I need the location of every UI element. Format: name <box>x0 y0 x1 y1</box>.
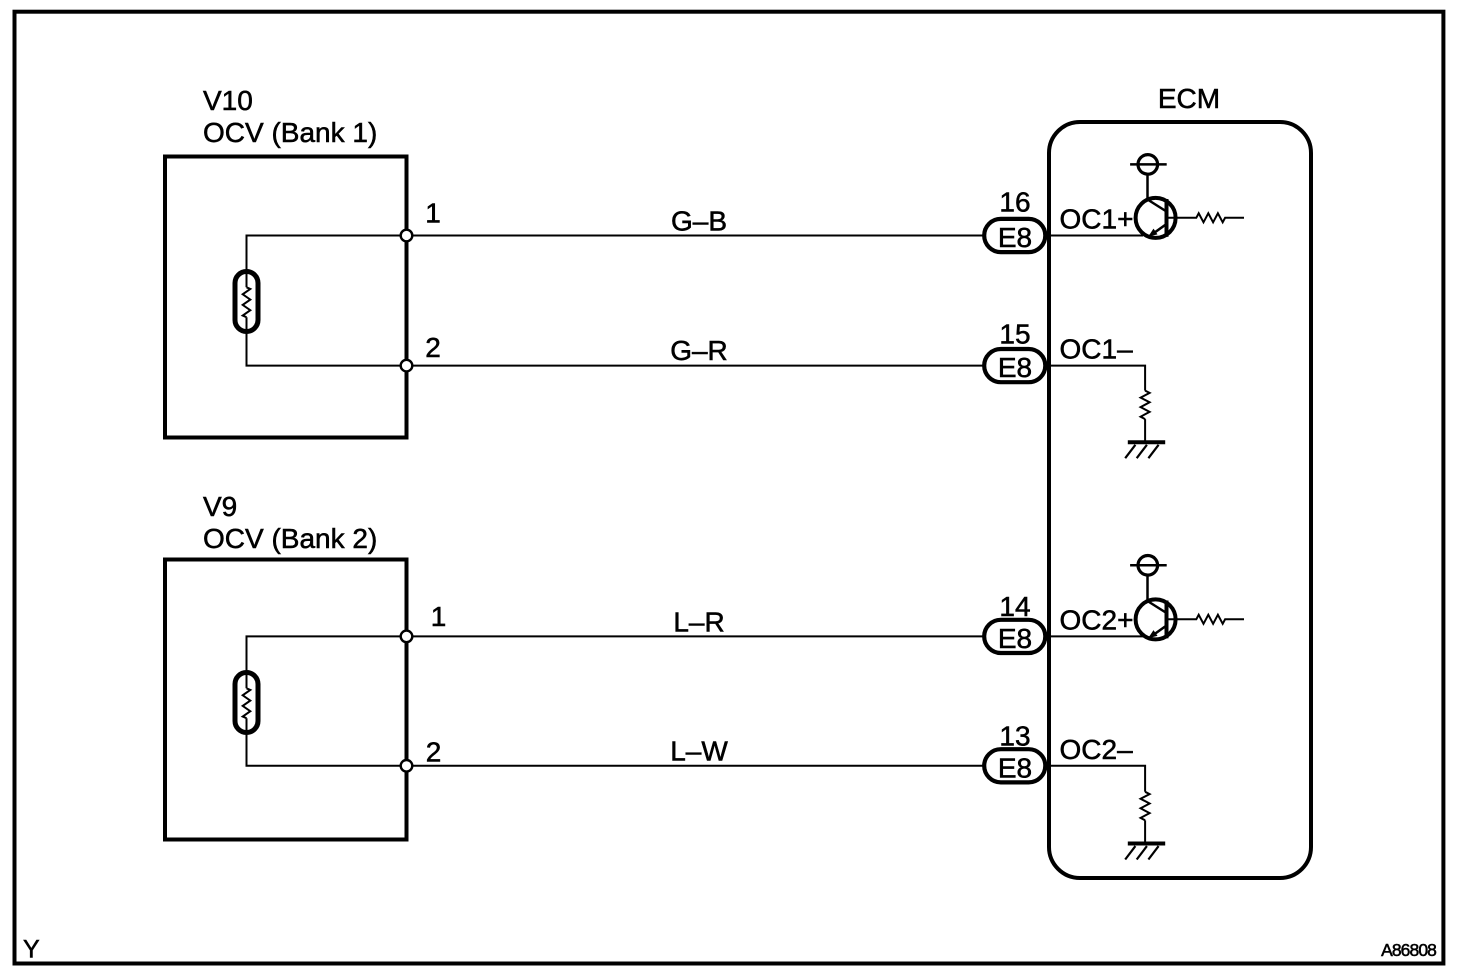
svg-text:1: 1 <box>425 198 441 229</box>
svg-text:A86808: A86808 <box>1381 940 1436 960</box>
svg-text:V9: V9 <box>203 491 237 522</box>
svg-text:1: 1 <box>431 601 447 632</box>
svg-text:2: 2 <box>425 332 441 363</box>
svg-text:L–W: L–W <box>670 736 728 767</box>
svg-text:E8: E8 <box>998 623 1032 654</box>
svg-text:OC2+: OC2+ <box>1060 604 1134 635</box>
svg-text:ECM: ECM <box>1158 83 1220 114</box>
svg-text:13: 13 <box>999 721 1030 752</box>
svg-text:OCV (Bank 2): OCV (Bank 2) <box>203 523 377 554</box>
svg-text:OC2–: OC2– <box>1060 734 1134 765</box>
svg-text:OC1–: OC1– <box>1060 334 1134 365</box>
svg-text:V10: V10 <box>203 85 253 116</box>
svg-text:L–R: L–R <box>673 607 724 638</box>
svg-text:OCV (Bank 1): OCV (Bank 1) <box>203 117 377 148</box>
svg-text:2: 2 <box>426 737 442 768</box>
svg-text:15: 15 <box>999 319 1030 350</box>
svg-text:14: 14 <box>999 591 1030 622</box>
svg-text:E8: E8 <box>998 752 1032 783</box>
svg-text:Y: Y <box>23 936 40 964</box>
svg-text:E8: E8 <box>998 222 1032 253</box>
svg-text:16: 16 <box>999 187 1030 218</box>
svg-text:OC1+: OC1+ <box>1060 204 1134 235</box>
svg-text:G–B: G–B <box>671 206 727 237</box>
svg-text:G–R: G–R <box>670 335 728 366</box>
svg-text:E8: E8 <box>998 352 1032 383</box>
